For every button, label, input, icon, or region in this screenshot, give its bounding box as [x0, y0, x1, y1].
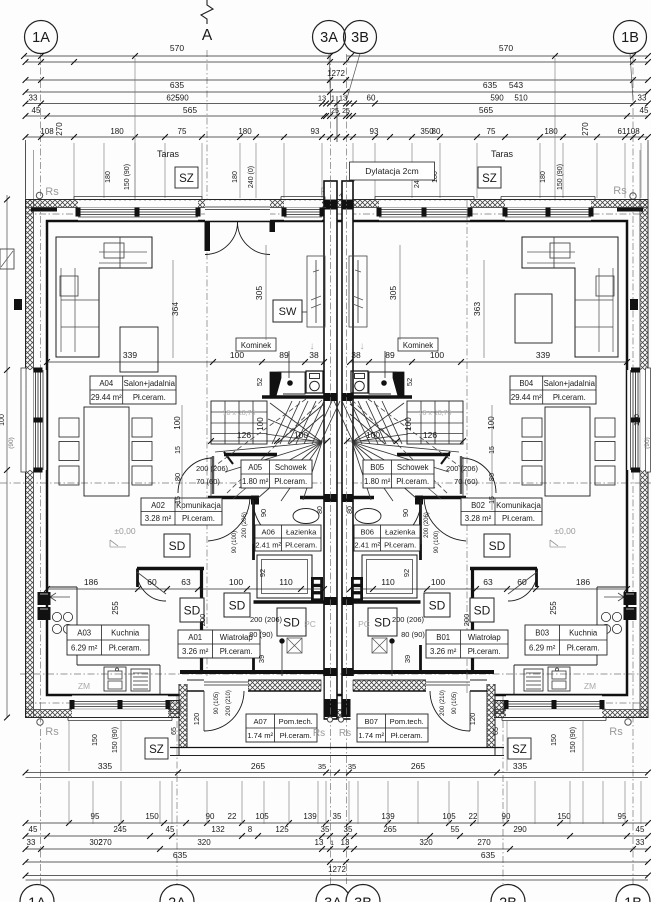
svg-text:80 (90): 80 (90)	[401, 630, 425, 639]
svg-text:2A: 2A	[168, 896, 186, 902]
svg-text:100: 100	[487, 416, 496, 430]
svg-text:150: 150	[145, 812, 159, 821]
svg-text:35: 35	[321, 825, 330, 834]
svg-text:SW: SW	[279, 306, 297, 318]
svg-text:90: 90	[502, 812, 511, 821]
svg-text:126: 126	[237, 430, 251, 440]
svg-text:100: 100	[0, 414, 6, 426]
svg-text:1272: 1272	[328, 865, 346, 874]
svg-text:120: 120	[468, 713, 477, 726]
svg-text:200 (206): 200 (206)	[242, 512, 248, 538]
svg-text:A01: A01	[188, 633, 202, 642]
svg-text:B02: B02	[471, 501, 485, 510]
svg-text:90: 90	[259, 509, 268, 517]
svg-text:186: 186	[576, 577, 590, 587]
svg-text:22: 22	[228, 812, 237, 821]
svg-text:Rs: Rs	[339, 728, 351, 739]
svg-text:565: 565	[479, 105, 493, 115]
svg-text:PC: PC	[304, 619, 316, 629]
svg-text:Łazienka: Łazienka	[286, 528, 317, 537]
svg-text:200 (206): 200 (206)	[196, 464, 229, 473]
svg-text:200 (206): 200 (206)	[446, 464, 479, 473]
svg-text:150 (90): 150 (90)	[557, 164, 564, 190]
svg-text:255: 255	[111, 601, 120, 615]
svg-text:55: 55	[451, 825, 460, 834]
svg-text:635: 635	[173, 850, 187, 860]
svg-text:565: 565	[183, 105, 197, 115]
svg-text:180: 180	[540, 171, 547, 183]
svg-text:180: 180	[110, 127, 124, 136]
svg-text:45: 45	[636, 825, 645, 834]
svg-text:Taras: Taras	[157, 149, 180, 159]
svg-text:80 (90): 80 (90)	[249, 630, 273, 639]
svg-text:SD: SD	[429, 599, 446, 613]
svg-text:15: 15	[175, 446, 182, 454]
svg-text:70 (60): 70 (60)	[454, 477, 478, 486]
svg-text:543: 543	[509, 80, 523, 90]
svg-text:B06: B06	[360, 528, 374, 537]
svg-text:Wiatrołap: Wiatrołap	[468, 633, 502, 642]
svg-text:186: 186	[84, 577, 98, 587]
svg-text:Pł.ceram.: Pł.ceram.	[109, 644, 142, 653]
svg-text:Salon+jadalnia: Salon+jadalnia	[124, 379, 176, 388]
svg-text:180: 180	[232, 171, 239, 183]
svg-text:80: 80	[317, 506, 324, 514]
svg-text:45: 45	[166, 825, 175, 834]
svg-text:1.80 m²: 1.80 m²	[242, 477, 269, 486]
svg-text:335: 335	[98, 761, 112, 771]
svg-text:570: 570	[499, 43, 513, 53]
svg-text:Rs: Rs	[613, 185, 627, 197]
svg-text:35: 35	[344, 825, 353, 834]
svg-text:Pł.ceram.: Pł.ceram.	[384, 541, 416, 550]
svg-text:Pł.ceram.: Pł.ceram.	[468, 647, 501, 656]
svg-text:(90): (90)	[644, 437, 651, 449]
svg-text:635: 635	[481, 850, 495, 860]
svg-text:108: 108	[40, 127, 54, 136]
svg-text:635: 635	[170, 80, 184, 90]
svg-text:Schowek: Schowek	[275, 463, 307, 472]
svg-text:B05: B05	[370, 463, 385, 472]
svg-text:150: 150	[551, 734, 558, 746]
svg-text:Komunikacja: Komunikacja	[496, 501, 541, 510]
svg-text:B01: B01	[436, 633, 450, 642]
svg-text:1.74 m²: 1.74 m²	[358, 731, 384, 740]
svg-text:180: 180	[105, 171, 112, 183]
svg-text:Pł.ceram.: Pł.ceram.	[285, 541, 317, 550]
svg-text:52: 52	[255, 378, 264, 386]
svg-text:1B: 1B	[621, 30, 639, 46]
svg-text:290: 290	[513, 825, 527, 834]
svg-text:90: 90	[401, 509, 410, 517]
svg-text:265: 265	[411, 761, 425, 771]
svg-text:150 (90): 150 (90)	[112, 727, 119, 753]
svg-text:B07: B07	[364, 717, 378, 726]
svg-text:SZ: SZ	[512, 744, 527, 756]
svg-text:52: 52	[405, 378, 414, 386]
svg-text:PC: PC	[358, 619, 370, 629]
svg-text:150 (90): 150 (90)	[124, 164, 131, 190]
svg-text:45: 45	[640, 106, 649, 115]
svg-text:80: 80	[347, 506, 354, 514]
svg-text:70 (60): 70 (60)	[196, 477, 220, 486]
svg-text:±0,00: ±0,00	[554, 526, 575, 536]
svg-text:90 (105): 90 (105)	[214, 692, 220, 714]
svg-text:95: 95	[618, 812, 627, 821]
svg-text:ZM: ZM	[584, 681, 596, 691]
svg-text:3A: 3A	[324, 896, 342, 902]
svg-text:15: 15	[489, 446, 496, 454]
svg-text:29.44 m²: 29.44 m²	[91, 393, 122, 402]
svg-text:Kuchnia: Kuchnia	[569, 629, 598, 638]
svg-text:75: 75	[178, 127, 187, 136]
svg-text:363: 363	[472, 302, 482, 316]
svg-text:3.28 m²: 3.28 m²	[145, 514, 172, 523]
svg-text:Rs: Rs	[313, 728, 325, 739]
svg-text:Pł.ceram.: Pł.ceram.	[567, 644, 600, 653]
svg-text:100: 100	[404, 417, 413, 431]
svg-text:Salon+jadalnia: Salon+jadalnia	[544, 379, 596, 388]
svg-text:63: 63	[483, 577, 493, 587]
svg-text:SZ: SZ	[179, 173, 194, 185]
svg-text:16 x 18,75: 16 x 18,75	[419, 410, 452, 417]
svg-text:108: 108	[626, 127, 640, 136]
svg-text:90 (105): 90 (105)	[452, 692, 458, 714]
svg-text:65: 65	[493, 727, 500, 735]
svg-text:Pł.ceram.: Pł.ceram.	[502, 514, 535, 523]
svg-text:Pł.ceram.: Pł.ceram.	[391, 731, 423, 740]
svg-text:A07: A07	[253, 717, 267, 726]
svg-text:A04: A04	[99, 379, 114, 388]
svg-text:100: 100	[294, 430, 308, 440]
svg-text:200: 200	[462, 614, 471, 627]
svg-text:35: 35	[333, 812, 342, 821]
svg-text:200 (206): 200 (206)	[250, 615, 283, 624]
svg-text:Komunikacja: Komunikacja	[176, 501, 221, 510]
svg-text:200 (206): 200 (206)	[424, 512, 430, 538]
svg-text:3.26 m²: 3.26 m²	[182, 647, 209, 656]
svg-text:45: 45	[32, 106, 41, 115]
svg-text:60: 60	[147, 577, 157, 587]
svg-text:±0,00: ±0,00	[114, 526, 135, 536]
svg-text:200 (210): 200 (210)	[226, 690, 232, 716]
svg-text:125: 125	[275, 825, 289, 834]
svg-text:Pł.ceram.: Pł.ceram.	[553, 393, 586, 402]
svg-text:Pł.ceram.: Pł.ceram.	[396, 477, 429, 486]
svg-text:38: 38	[309, 350, 319, 360]
svg-text:15: 15	[175, 496, 182, 504]
svg-text:570: 570	[170, 43, 184, 53]
svg-text:89: 89	[385, 350, 395, 360]
svg-text:16 x 18,75: 16 x 18,75	[223, 410, 256, 417]
svg-text:Pł.ceram.: Pł.ceram.	[280, 731, 312, 740]
svg-text:Pł.ceram.: Pł.ceram.	[182, 514, 215, 523]
svg-text:60: 60	[517, 577, 527, 587]
svg-text:22: 22	[469, 812, 478, 821]
svg-text:110: 110	[279, 577, 293, 587]
svg-text:A02: A02	[151, 501, 165, 510]
svg-text:35: 35	[348, 762, 356, 771]
svg-text:3B: 3B	[354, 896, 372, 902]
svg-text:265: 265	[383, 825, 397, 834]
svg-text:1B: 1B	[624, 896, 642, 902]
svg-text:13: 13	[315, 838, 324, 847]
svg-text:15: 15	[489, 496, 496, 504]
svg-text:A: A	[202, 27, 213, 44]
svg-text:92: 92	[402, 569, 411, 577]
svg-text:39: 39	[257, 655, 266, 663]
svg-text:1A: 1A	[32, 30, 50, 46]
svg-text:100: 100	[366, 430, 380, 440]
svg-text:25: 25	[331, 108, 339, 115]
svg-text:80: 80	[173, 473, 182, 481]
svg-text:1.80 m²: 1.80 m²	[364, 477, 391, 486]
svg-text:270: 270	[55, 122, 64, 136]
svg-text:126: 126	[423, 430, 437, 440]
svg-text:93: 93	[370, 127, 379, 136]
svg-text:3B: 3B	[351, 30, 369, 46]
svg-text:SD: SD	[229, 599, 246, 613]
svg-text:105: 105	[255, 812, 269, 821]
svg-text:245: 245	[113, 825, 127, 834]
svg-text:60: 60	[367, 94, 376, 103]
svg-text:Kominek: Kominek	[241, 341, 271, 350]
svg-text:1: 1	[331, 96, 335, 103]
svg-text:1A: 1A	[28, 896, 46, 902]
svg-text:Pł.ceram.: Pł.ceram.	[274, 477, 307, 486]
svg-text:Schowek: Schowek	[397, 463, 429, 472]
svg-text:510: 510	[514, 94, 528, 103]
svg-text:8: 8	[248, 825, 253, 834]
svg-text:Taras: Taras	[491, 149, 514, 159]
svg-text:80: 80	[432, 127, 441, 136]
svg-text:(90): (90)	[8, 437, 15, 449]
svg-text:265: 265	[251, 761, 265, 771]
svg-text:29.44 m²: 29.44 m²	[511, 393, 542, 402]
svg-text:Pom.tech.: Pom.tech.	[390, 717, 424, 726]
svg-text:120: 120	[192, 713, 201, 726]
svg-text:Pł.ceram.: Pł.ceram.	[220, 647, 253, 656]
svg-text:80: 80	[487, 473, 496, 481]
svg-text:SZ: SZ	[149, 744, 164, 756]
svg-text:90 (100): 90 (100)	[434, 531, 440, 553]
svg-text:100: 100	[173, 416, 182, 430]
svg-text:13: 13	[318, 94, 326, 103]
svg-text:635: 635	[483, 80, 497, 90]
svg-text:B03: B03	[535, 629, 549, 638]
svg-text:2.41 m²: 2.41 m²	[354, 541, 380, 550]
svg-text:139: 139	[303, 812, 317, 821]
svg-text:100: 100	[634, 414, 641, 426]
svg-text:33: 33	[27, 838, 36, 847]
svg-text:75: 75	[487, 127, 496, 136]
svg-text:35: 35	[318, 762, 326, 771]
svg-text:65: 65	[171, 727, 178, 735]
svg-text:590: 590	[175, 94, 189, 103]
svg-text:38: 38	[351, 350, 361, 360]
svg-text:1.74 m²: 1.74 m²	[247, 731, 273, 740]
svg-text:33: 33	[638, 94, 647, 103]
svg-text:Kuchnia: Kuchnia	[111, 629, 140, 638]
svg-text:100: 100	[229, 577, 243, 587]
svg-text:270: 270	[98, 838, 112, 847]
svg-text:3A: 3A	[320, 30, 338, 46]
svg-text:ZM: ZM	[78, 681, 90, 691]
svg-text:339: 339	[536, 350, 550, 360]
svg-text:240 (0): 240 (0)	[248, 166, 255, 188]
svg-text:364: 364	[170, 302, 180, 316]
svg-text:63: 63	[181, 577, 191, 587]
svg-text:200 (210): 200 (210)	[440, 690, 446, 716]
svg-text:150: 150	[92, 734, 99, 746]
svg-text:150 (90): 150 (90)	[570, 727, 577, 753]
svg-text:255: 255	[549, 601, 558, 615]
svg-text:270: 270	[477, 838, 491, 847]
svg-text:270: 270	[581, 122, 590, 136]
svg-text:33: 33	[636, 838, 645, 847]
svg-text:SD: SD	[283, 616, 300, 630]
svg-text:200 (206): 200 (206)	[392, 615, 425, 624]
svg-text:A05: A05	[248, 463, 263, 472]
svg-text:3.28 m²: 3.28 m²	[465, 514, 492, 523]
svg-text:92: 92	[258, 569, 267, 577]
svg-text:3.26 m²: 3.26 m²	[430, 647, 457, 656]
svg-text:13: 13	[341, 838, 350, 847]
svg-text:132: 132	[211, 825, 225, 834]
svg-text:180: 180	[544, 127, 558, 136]
svg-text:6.29 m²: 6.29 m²	[71, 644, 98, 653]
svg-text:B04: B04	[519, 379, 534, 388]
svg-text:Kominek: Kominek	[403, 341, 433, 350]
svg-text:110: 110	[381, 577, 395, 587]
svg-text:39: 39	[403, 655, 412, 663]
svg-text:590: 590	[490, 94, 504, 103]
svg-text:100: 100	[430, 350, 444, 360]
svg-text:93: 93	[311, 127, 320, 136]
svg-text:150: 150	[557, 812, 571, 821]
svg-text:45: 45	[29, 825, 38, 834]
svg-text:305: 305	[388, 286, 398, 300]
svg-text:SD: SD	[474, 604, 491, 618]
svg-text:SD: SD	[489, 539, 506, 553]
svg-text:305: 305	[254, 286, 264, 300]
svg-text:1272: 1272	[327, 69, 345, 78]
svg-text:A03: A03	[77, 629, 91, 638]
svg-text:320: 320	[197, 838, 211, 847]
svg-text:25: 25	[342, 108, 350, 115]
svg-text:SD: SD	[374, 616, 391, 630]
svg-text:Rs: Rs	[45, 186, 59, 198]
svg-text:90 (100): 90 (100)	[232, 531, 238, 553]
svg-text:200: 200	[198, 614, 207, 627]
svg-text:Pom.tech.: Pom.tech.	[279, 717, 313, 726]
svg-text:33: 33	[29, 94, 38, 103]
svg-text:1: 1	[330, 840, 334, 847]
svg-text:A06: A06	[261, 528, 275, 537]
svg-text:Łazienka: Łazienka	[385, 528, 416, 537]
svg-text:6.29 m²: 6.29 m²	[529, 644, 556, 653]
svg-text:2.41 m²: 2.41 m²	[255, 541, 281, 550]
svg-text:95: 95	[91, 812, 100, 821]
svg-text:Rs: Rs	[609, 726, 623, 738]
svg-text:320: 320	[419, 838, 433, 847]
svg-text:339: 339	[123, 350, 137, 360]
svg-text:100: 100	[431, 577, 445, 587]
svg-text:100: 100	[230, 350, 244, 360]
svg-text:180: 180	[238, 127, 252, 136]
svg-text:100: 100	[256, 417, 265, 431]
svg-text:2B: 2B	[499, 896, 517, 902]
svg-text:Rs: Rs	[45, 726, 59, 738]
svg-text:89: 89	[279, 350, 289, 360]
svg-text:Pł.ceram.: Pł.ceram.	[133, 393, 166, 402]
svg-text:SD: SD	[169, 539, 186, 553]
svg-text:Dylatacja 2cm: Dylatacja 2cm	[365, 166, 418, 176]
svg-text:335: 335	[513, 761, 527, 771]
svg-text:SZ: SZ	[482, 173, 497, 185]
